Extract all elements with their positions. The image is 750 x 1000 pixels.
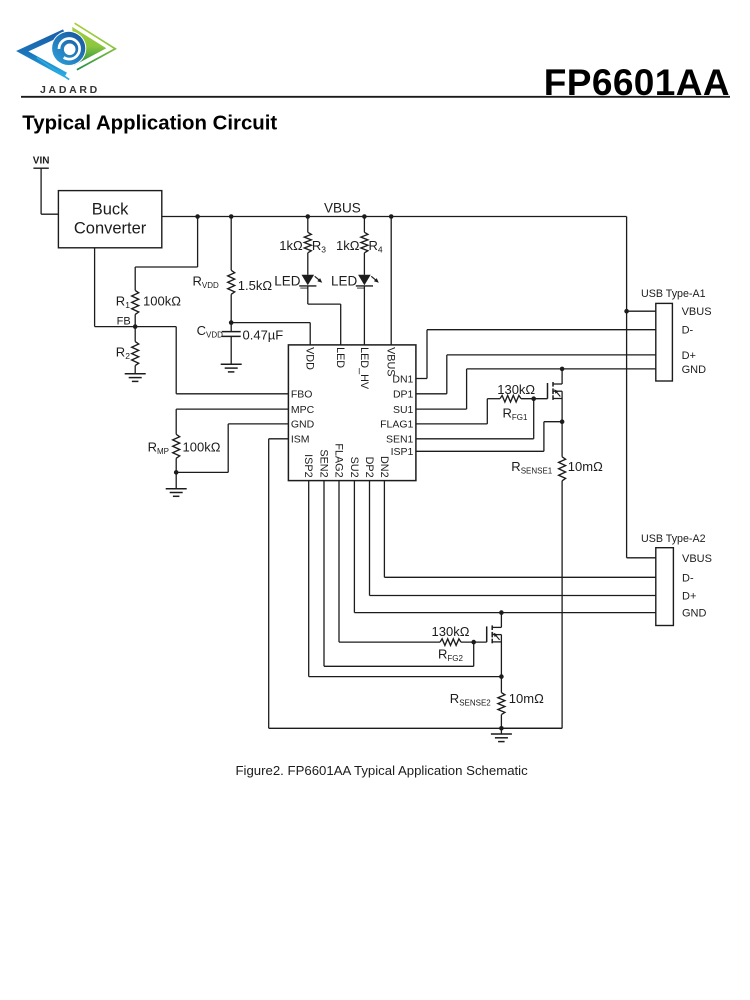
svg-text:GND: GND — [291, 419, 315, 431]
svg-text:SEN2: SEN2 — [317, 449, 329, 477]
svg-text:RSENSE2: RSENSE2 — [450, 691, 492, 708]
svg-text:RMP: RMP — [148, 439, 169, 456]
svg-text:USB Type-A2: USB Type-A2 — [641, 533, 706, 545]
svg-text:10mΩ: 10mΩ — [568, 459, 603, 474]
svg-text:130kΩ: 130kΩ — [497, 382, 535, 397]
svg-text:LED_: LED_ — [274, 274, 308, 289]
svg-text:GND: GND — [682, 608, 707, 620]
svg-text:LED_HV: LED_HV — [358, 347, 370, 390]
svg-text:ISP2: ISP2 — [302, 454, 314, 477]
svg-text:RFG1: RFG1 — [503, 405, 529, 422]
svg-text:RFG2: RFG2 — [438, 647, 464, 664]
svg-text:Converter: Converter — [74, 220, 147, 238]
svg-text:FP6601AA: FP6601AA — [544, 62, 730, 103]
svg-text:ISM: ISM — [291, 434, 310, 446]
svg-text:VDD: VDD — [304, 347, 316, 370]
svg-text:VBUS: VBUS — [682, 306, 712, 318]
svg-text:LED: LED — [334, 347, 346, 368]
svg-text:SU1: SU1 — [393, 404, 414, 416]
svg-text:RVDD: RVDD — [193, 273, 220, 290]
svg-text:130kΩ: 130kΩ — [432, 624, 470, 639]
svg-text:R3: R3 — [312, 238, 326, 255]
svg-text:SEN1: SEN1 — [386, 434, 414, 446]
svg-text:FLAG1: FLAG1 — [380, 419, 413, 431]
svg-text:DP2: DP2 — [363, 457, 375, 478]
svg-text:1.5kΩ: 1.5kΩ — [238, 278, 273, 293]
svg-text:FLAG2: FLAG2 — [332, 443, 344, 477]
svg-text:MPC: MPC — [291, 404, 315, 416]
svg-text:VBUS: VBUS — [385, 347, 397, 376]
svg-text:D+: D+ — [682, 591, 696, 603]
svg-text:0.47µF: 0.47µF — [243, 328, 284, 343]
svg-text:1kΩ: 1kΩ — [336, 238, 360, 253]
svg-text:FB: FB — [117, 316, 131, 328]
svg-text:GND: GND — [682, 364, 707, 376]
svg-text:VBUS: VBUS — [324, 201, 361, 216]
svg-text:JADARD: JADARD — [40, 84, 100, 96]
svg-text:DN1: DN1 — [392, 373, 413, 385]
svg-text:RSENSE1: RSENSE1 — [511, 459, 553, 476]
svg-text:D+: D+ — [682, 350, 696, 362]
svg-text:USB Type-A1: USB Type-A1 — [641, 288, 706, 300]
svg-text:DN2: DN2 — [378, 456, 390, 478]
svg-text:Buck: Buck — [92, 200, 129, 218]
svg-text:D-: D- — [682, 325, 694, 337]
svg-text:FBO: FBO — [291, 389, 313, 401]
svg-text:100kΩ: 100kΩ — [183, 439, 221, 454]
svg-text:LED_: LED_ — [331, 274, 365, 289]
svg-text:100kΩ: 100kΩ — [143, 293, 181, 308]
svg-text:CVDD: CVDD — [197, 323, 224, 340]
svg-text:ISP1: ISP1 — [391, 446, 414, 458]
svg-text:1kΩ: 1kΩ — [279, 238, 303, 253]
svg-text:VBUS: VBUS — [682, 553, 712, 565]
svg-text:SU2: SU2 — [348, 457, 360, 478]
svg-text:Typical Application Circuit: Typical Application Circuit — [22, 112, 277, 134]
svg-text:DP1: DP1 — [393, 389, 414, 401]
svg-text:Figure2. FP6601AA Typical Appl: Figure2. FP6601AA Typical Application Sc… — [235, 763, 528, 778]
svg-text:VIN: VIN — [33, 155, 50, 166]
svg-text:10mΩ: 10mΩ — [509, 691, 544, 706]
svg-text:R2: R2 — [116, 344, 130, 361]
svg-text:R4: R4 — [369, 238, 383, 255]
svg-text:D-: D- — [682, 572, 694, 584]
svg-text:R1: R1 — [116, 293, 130, 310]
